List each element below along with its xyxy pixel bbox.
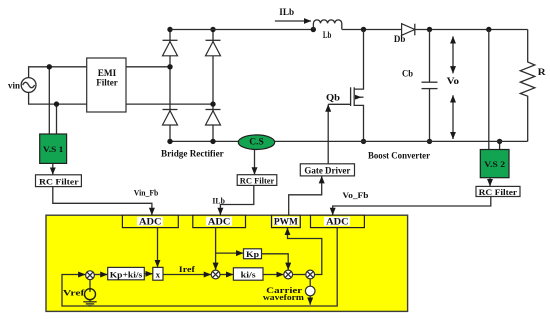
capacitor Cb	[422, 82, 438, 88]
wire gate driver to gate (arrow up)	[327, 105, 329, 164]
svg-text:Iref: Iref	[179, 264, 195, 274]
node bridge left mid	[167, 64, 172, 69]
AC source vin	[21, 78, 36, 93]
summing junction 1	[86, 271, 95, 280]
svg-text:ki/s: ki/s	[241, 270, 257, 280]
transistor Qb	[351, 87, 364, 141]
capacitor Cb wire top	[429, 30, 431, 83]
node Cb bottom	[427, 139, 432, 144]
svg-text:ADC: ADC	[139, 217, 162, 227]
svg-text:RC Filter: RC Filter	[479, 187, 518, 197]
node bridge left top	[167, 27, 172, 32]
EMI filter box	[87, 58, 126, 112]
svg-text:V.S 1: V.S 1	[43, 144, 64, 154]
summing junction 3	[284, 270, 293, 279]
node bridge left bottom	[167, 139, 172, 144]
svg-text:Cb: Cb	[402, 68, 413, 78]
voltage sensor V.S 1	[40, 134, 67, 163]
wire junction2 to ki/s	[220, 274, 233, 276]
gain block Kp	[244, 249, 262, 259]
wire junction1 to PI block	[94, 274, 107, 276]
svg-text:x: x	[156, 270, 161, 280]
wire VS2 sense from top rail	[488, 30, 490, 150]
current sensor C.S	[238, 135, 274, 150]
node bridge right top	[210, 27, 215, 32]
wire VS2 sense from bottom rail	[499, 141, 501, 149]
capacitor Cb wire bottom	[429, 89, 431, 142]
node VS2 top	[486, 27, 491, 32]
ADC 3 box	[311, 215, 365, 227]
voltage sensor V.S 2	[480, 150, 509, 178]
feedback wire from ADC3 around bottom to summing junction 1	[62, 228, 337, 306]
svg-text:Lb: Lb	[323, 30, 332, 40]
summing junction 4	[306, 270, 315, 279]
bottom rail	[170, 140, 528, 142]
wire inductor to diode Db	[342, 29, 402, 31]
svg-text:PWM: PWM	[274, 217, 299, 227]
wire junction4 to PWM	[288, 228, 322, 275]
node top tap junction	[47, 64, 52, 69]
svg-text:Filter: Filter	[96, 78, 118, 88]
Vo upper arrow	[452, 36, 454, 73]
svg-text:Qb: Qb	[326, 93, 340, 103]
wire PWM to gate driver	[289, 176, 322, 215]
wire RC2 to ADC2	[220, 185, 253, 215]
wire AC top to EMI to bridge left leg	[29, 67, 170, 78]
multiplier x box	[153, 267, 163, 280]
svg-text:Bridge Rectifier: Bridge Rectifier	[161, 149, 224, 159]
svg-text:Vref: Vref	[63, 288, 85, 298]
svg-text:Kp+ki/s: Kp+ki/s	[110, 269, 143, 279]
wire AC bottom to EMI to bridge right leg	[29, 92, 213, 104]
svg-text:Boost Converter: Boost Converter	[368, 151, 430, 161]
wire gate lead	[328, 103, 350, 105]
svg-text:Vo_Fb: Vo_Fb	[342, 190, 368, 200]
node inductor left	[311, 27, 316, 32]
ADC 2 box	[193, 215, 246, 227]
wire junction3 to junction4	[293, 274, 306, 276]
wire RC3 to ADC3	[333, 197, 491, 215]
PI block Kp+ki/s	[108, 267, 145, 279]
resistor R	[520, 30, 535, 142]
RC filter 1	[36, 175, 82, 187]
summing junction 2	[211, 270, 220, 279]
wire multiplier to junction 2	[163, 274, 211, 276]
svg-text:vin: vin	[8, 81, 20, 91]
node source to rail	[361, 139, 366, 144]
svg-text:EMI: EMI	[98, 68, 117, 78]
svg-text:ILb: ILb	[279, 7, 294, 17]
wire RC1 to ADC1	[53, 187, 152, 215]
wire V.S1 tap from bottom line	[56, 104, 58, 134]
wire V.S1 tap from top line	[48, 67, 50, 134]
carrier waveform source	[305, 279, 315, 305]
node bridge right mid	[210, 101, 215, 106]
node drain junction	[361, 27, 366, 32]
wire C.S to RC filter2 (arrow)	[254, 150, 256, 175]
RC filter 2	[237, 175, 277, 186]
wire ADC2 to summing junction 2	[215, 228, 217, 270]
bridge rectifier right leg wire	[212, 30, 214, 142]
ILb arrow	[275, 20, 311, 22]
svg-text:ADC: ADC	[326, 217, 349, 227]
label Carrier waveform	[263, 285, 304, 302]
wire branch to Kp	[216, 252, 244, 254]
RC filter 3	[476, 186, 520, 197]
svg-text:Vin_Fb: Vin_Fb	[134, 188, 159, 198]
diode D3 top-right	[206, 40, 221, 56]
svg-text:Kp: Kp	[246, 249, 259, 259]
wire V.S1 to RC filter1 (arrow)	[52, 163, 54, 174]
inductor Lb	[313, 20, 341, 30]
Vo lower arrow	[452, 95, 454, 139]
controller yellow box	[46, 215, 408, 311]
ground	[83, 300, 96, 306]
svg-text:RC Filter: RC Filter	[39, 176, 79, 186]
node bottom tap junction	[54, 101, 59, 106]
wire Db to right corner	[415, 29, 528, 31]
diode D4 bottom-right	[206, 110, 221, 126]
gain block ki/s	[233, 268, 263, 280]
node Cb top	[427, 27, 432, 32]
svg-text:Gate Driver: Gate Driver	[304, 166, 350, 176]
node bridge right bottom	[210, 139, 215, 144]
svg-text:R: R	[538, 67, 547, 77]
svg-text:ADC: ADC	[208, 217, 231, 227]
svg-text:C.S: C.S	[249, 137, 264, 147]
diode D2 bottom-left	[163, 110, 178, 126]
wire ki/s to junction 3	[263, 274, 284, 276]
svg-text:V.S 2: V.S 2	[484, 159, 505, 169]
wire V.S2 to RC filter3 (arrow)	[489, 178, 491, 186]
diode D1 top-left	[163, 40, 178, 56]
Vref source	[85, 280, 96, 300]
gate driver box	[300, 164, 354, 176]
PWM box	[272, 215, 301, 227]
svg-text:Vo: Vo	[447, 76, 460, 86]
svg-text:waveform: waveform	[263, 292, 304, 302]
svg-text:ILb: ILb	[212, 195, 225, 205]
transistor Q1 drain wire	[354, 30, 363, 90]
ADC 1 box	[122, 215, 178, 227]
diode Db	[402, 24, 415, 36]
svg-text:RC Filter: RC Filter	[240, 176, 275, 186]
wire top rail to inductor	[170, 29, 313, 31]
wire PI to multiplier	[144, 273, 152, 275]
wire Kp to summing junction 3	[262, 254, 289, 270]
wire ADC1 to multiplier	[157, 228, 159, 268]
node VS2 bottom-rail tap	[497, 139, 502, 144]
svg-text:Db: Db	[394, 34, 406, 44]
bridge rectifier left leg wire	[169, 30, 171, 142]
